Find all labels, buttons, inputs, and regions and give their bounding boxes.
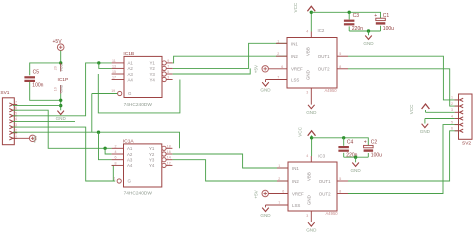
pin IC2 IN2 pin2 [276,55,287,57]
svg-text:5: 5 [15,112,17,116]
svg-text:LSS: LSS [292,203,300,208]
svg-text:74HC240DW: 74HC240DW [124,190,153,196]
svg-text:Y4: Y4 [149,163,155,168]
svg-text:Y3: Y3 [150,72,156,77]
pin IC3 OUT2 pin8 [337,193,348,195]
wire SV1 pin1 to +5V [13,137,29,139]
wire IC1P GND down [60,94,62,111]
pin SV1 pin 5 [9,114,13,117]
svg-text:11: 11 [112,59,116,63]
svg-text:8: 8 [339,190,341,194]
svg-text:13: 13 [112,64,116,68]
svg-text:Y3: Y3 [149,158,155,163]
svg-text:6: 6 [115,156,117,160]
node junction C5 gnd [59,99,62,102]
svg-text:A4: A4 [127,163,133,168]
svg-text:VBB: VBB [306,172,311,181]
svg-text:+5V: +5V [254,189,259,198]
wire IC1A A4 to G tie [112,165,114,181]
svg-text:A1: A1 [127,146,133,151]
svg-text:GND: GND [350,168,361,173]
svg-text:Y1: Y1 [150,61,156,66]
wire VCC to IC2 VBB [310,11,312,32]
svg-text:GND: GND [306,195,311,205]
svg-text:IN2: IN2 [291,54,298,59]
pin IC1B Y3 pin 5 [162,72,166,76]
svg-text:6: 6 [281,65,283,69]
pin SV2 pin 2 [460,104,464,107]
pin IC1A A1 pin 2 [112,147,124,149]
svg-text:2: 2 [451,102,453,106]
svg-text:Y2: Y2 [149,152,155,157]
pin IC1A A4 pin 8 [112,164,124,166]
wire IC3 LSS to ground [265,205,267,207]
pin IC3 LSS pin7 [266,204,289,206]
pin SV1 pin 3 [9,125,13,128]
pin IC1B A1 pin 11 [112,62,124,64]
svg-text:7: 7 [167,64,169,68]
wire G net down to pin2 row [91,94,93,133]
svg-text:2: 2 [277,52,279,56]
svg-text:2: 2 [115,144,117,148]
wire SV1 pin7 to GND [13,105,61,107]
svg-text:IN1: IN1 [291,41,298,46]
supply VCC above IC3 [308,131,316,136]
svg-text:6: 6 [15,106,17,110]
pin IC2 LSS pin7 [266,79,288,81]
svg-text:12: 12 [167,161,171,165]
svg-text:1: 1 [277,39,279,43]
svg-text:VCC: VCC [293,2,298,12]
capacitor C4 [343,138,345,146]
pin IC1B A4 pin 17 [112,79,124,81]
wire IC1B Y3 tie to Y2 net [173,68,251,74]
pin GND pin10 of IC1P [60,85,62,94]
svg-text:74HC240DW: 74HC240DW [124,102,153,108]
svg-text:A1: A1 [128,61,134,66]
svg-text:4: 4 [115,150,117,154]
svg-text:6: 6 [451,127,453,131]
svg-text:C2: C2 [371,139,378,145]
node junction gnd caps top [367,29,370,32]
pin SV1 pin 7 [9,103,13,106]
svg-text:A4: A4 [128,77,134,82]
svg-text:18: 18 [167,144,171,148]
svg-text:IC3: IC3 [318,154,325,159]
supply VCC at SV2 pin3 [426,111,455,113]
ground GND below IC3 [308,222,315,226]
svg-text:100u: 100u [371,153,382,159]
node junction C4 top [342,136,345,139]
svg-text:VCC: VCC [409,104,414,114]
svg-text:Y4: Y4 [150,77,156,82]
wire SV1 pin3 to IC1A G [13,127,115,181]
pin IC3 VBB pin4 [310,156,312,162]
svg-text:A2: A2 [128,66,134,71]
pin IC2 OUT1 pin5 [337,55,348,57]
wire IC1A Y2 to IC3 IN1 [172,154,288,168]
svg-text:OUT1: OUT1 [318,54,330,59]
wire IC1B Y2 to IC2 IN1 [173,43,287,68]
pin SV2 pin 4 [460,117,464,120]
pin IC2 GND pad pin3 [310,88,312,105]
svg-text:3: 3 [15,123,17,127]
pin IC1A Y2 pin 16 [162,152,166,156]
pin IC1A A3 pin 6 [112,159,124,161]
svg-text:4: 4 [15,117,17,121]
svg-text:20: 20 [53,66,57,70]
svg-text:LSS: LSS [291,77,299,82]
wire IC3 OUT1 to SV2 pin6 [348,131,459,181]
svg-text:16: 16 [167,150,171,154]
node junction IC1A A1 [103,147,106,150]
svg-text:2: 2 [278,177,280,181]
node junction gnd caps mid [354,156,357,159]
pin IC2 OUT2 pin8 [337,68,348,70]
svg-text:+5V: +5V [254,64,259,73]
wire IC1A Y3 to IC3 IN2 [172,160,288,181]
pin IC1B G pin 19 [118,91,122,95]
svg-text:19: 19 [111,89,115,93]
svg-text:5: 5 [339,177,341,181]
svg-text:IC1P: IC1P [58,77,69,83]
svg-text:OUT2: OUT2 [318,67,330,72]
supply VCC above IC2 [307,6,315,11]
pin IC1B Y2 pin 7 [162,66,166,70]
svg-text:C5: C5 [33,70,40,76]
wire IC2 OUT2 to SV2 pin2 [348,69,459,106]
svg-text:3: 3 [306,214,308,218]
ground GND below C3 C1 [365,36,372,40]
svg-text:A2: A2 [127,152,133,157]
ground GND below C4 C2 [352,163,359,167]
wire elbow to IC1B A2 [99,63,112,69]
pin IC2 VREF pin6 [268,68,287,70]
pin IC1A Y4 pin 12 [162,163,166,167]
svg-text:OUT1: OUT1 [319,179,331,184]
pin IC1A G pin 1 [117,179,121,183]
wire IC3 OUT2 to SV2 pin5 [348,125,459,194]
svg-text:G: G [128,179,132,184]
svg-text:10: 10 [53,87,57,91]
svg-text:7: 7 [15,100,17,104]
svg-text:3: 3 [451,108,453,112]
pin IC3 OUT1 pin5 [337,180,348,182]
wire IC2 OUT1 to SV2 pin1 [348,56,459,100]
node junction VCC rail mid [310,136,313,139]
svg-text:17: 17 [112,76,116,80]
pin SV1 pin 1 [9,137,13,140]
svg-text:100u: 100u [383,26,394,32]
pin IC1A Y3 pin 14 [162,158,166,162]
svg-text:A3: A3 [127,158,133,163]
capacitor C3 [348,12,350,19]
svg-text:1: 1 [451,96,453,100]
connector SV2 [459,94,473,139]
pin SV1 pin 6 [9,109,13,112]
wire SV1 pin6 to IC1A A1 A2 [13,110,112,148]
ground GND at IC2 LSS [262,82,269,86]
pin VCC pin20 of IC1P [60,63,62,72]
ground GND at SV2 pin4 [425,118,455,120]
svg-text:GND: GND [306,228,317,233]
svg-text:A4950: A4950 [325,88,338,93]
pin IC1B Y4 pin 3 [162,77,166,81]
wire VCC to IC3 VBB [311,135,313,156]
svg-text:3: 3 [167,76,169,80]
ground GND below IC2 [308,105,315,109]
svg-text:100n: 100n [32,83,43,89]
pin IC1B Y1 pin 9 [162,61,166,65]
svg-text:VCC: VCC [297,126,302,136]
node junction IC1B A1 [97,61,100,64]
svg-text:8: 8 [115,161,117,165]
svg-text:4: 4 [451,114,453,118]
node junction SV1 gnd [59,104,62,107]
supply +5V at IC2 VREF [262,66,268,72]
svg-text:+5V: +5V [33,134,38,143]
svg-text:GND: GND [420,129,431,134]
svg-text:+: + [364,139,367,145]
svg-text:VREF: VREF [292,192,304,197]
svg-text:14: 14 [167,156,171,160]
pin SV1 pin 2 [9,131,13,134]
pin IC3 IN2 pin2 [277,180,288,182]
wire SV1 pin2 to G net row [13,132,180,148]
supply +5V symbol at SV1 pin1 [29,135,35,141]
svg-text:OUT2: OUT2 [319,192,331,197]
svg-text:C3: C3 [353,13,360,19]
supply +5V symbol P+1 [57,44,64,51]
svg-text:15: 15 [112,70,116,74]
wire LSS down to ground [265,80,267,83]
ground GND below IC1P [57,111,64,115]
svg-text:5: 5 [451,120,453,124]
svg-text:VREF: VREF [291,67,303,72]
pin IC2 VBB pin4 [310,32,312,38]
svg-text:6: 6 [282,190,284,194]
svg-text:GND: GND [60,84,64,92]
pin IC3 GND pad pin3 [310,211,312,222]
svg-text:GND: GND [363,41,374,46]
svg-text:SV1: SV1 [0,90,9,96]
wire C5 bottom to ground node [30,82,61,101]
svg-text:7: 7 [277,76,279,80]
svg-text:A4950: A4950 [326,211,339,216]
svg-text:GND: GND [56,116,67,121]
svg-text:GND: GND [260,213,271,218]
wire IC1B G net loop from Y4 [98,74,180,113]
node junction C3 top [348,11,351,14]
svg-text:Y2: Y2 [150,66,156,71]
wire cap bottoms to ground [349,30,380,32]
svg-text:Y1: Y1 [149,146,155,151]
pin IC1B A3 pin 15 [112,73,124,75]
pin SV2 pin 3 [460,111,464,114]
wire elbow to IC1A A2 [105,148,112,154]
pin SV2 pin 1 [460,98,464,101]
wire IC1B G row [92,93,118,95]
wire VCC rail to C3 C1 [311,12,380,18]
svg-text:7: 7 [278,201,280,205]
svg-text:GND: GND [305,70,310,80]
svg-text:1: 1 [15,134,17,138]
wire branch to IC1A A3 [99,132,112,160]
wire +5V vertical [60,51,62,63]
ground GND at IC3 LSS [262,208,269,212]
wire VCC rail to C4 C2 [312,138,369,146]
svg-text:+5V: +5V [53,39,63,45]
svg-text:9: 9 [167,59,169,63]
node junction VCC rail top [310,11,313,14]
wire +5V rail to C5 [30,63,61,75]
pin SV2 pin 6 [460,129,464,132]
svg-text:VCC: VCC [60,64,64,72]
svg-text:A3: A3 [128,72,134,77]
svg-text:G: G [128,91,132,96]
pin IC1A A2 pin 4 [112,153,124,155]
svg-text:GND: GND [306,110,317,115]
pin IC3 IN1 pin1 [277,167,288,169]
svg-text:3: 3 [306,91,308,95]
svg-text:1: 1 [114,177,116,181]
svg-text:5: 5 [339,52,341,56]
node junction +5V rail [59,61,62,64]
svg-text:C4: C4 [347,139,354,145]
pin SV1 pin 4 [9,120,13,123]
wire SV1 pin5 to IC1B A1 A2 [13,63,112,116]
pin IC1A Y1 pin 18 [162,146,166,150]
pin IC3 VREF pin6 [268,193,288,195]
pin SV2 pin 5 [460,123,464,126]
pin IC1B A2 pin 13 [112,67,124,69]
wire IC1B Y1 to IC2 IN2 [173,56,287,63]
pin IC2 IN1 pin1 [276,42,287,44]
svg-text:4: 4 [306,30,308,34]
node junction A3 branch [97,131,100,134]
svg-text:IC2: IC2 [318,28,325,33]
svg-text:1: 1 [278,164,280,168]
wire SV1 pin4 [13,120,75,122]
svg-text:IN2: IN2 [292,179,299,184]
wire cap bottoms to ground mid [344,156,369,158]
svg-text:IN1: IN1 [292,166,299,171]
svg-text:GND: GND [260,88,271,93]
svg-text:SV2: SV2 [462,141,471,147]
svg-text:4: 4 [306,154,308,158]
svg-text:5: 5 [167,70,169,74]
svg-text:VBB: VBB [305,47,310,56]
supply +5V at IC3 VREF [262,190,268,196]
svg-text:8: 8 [339,65,341,69]
